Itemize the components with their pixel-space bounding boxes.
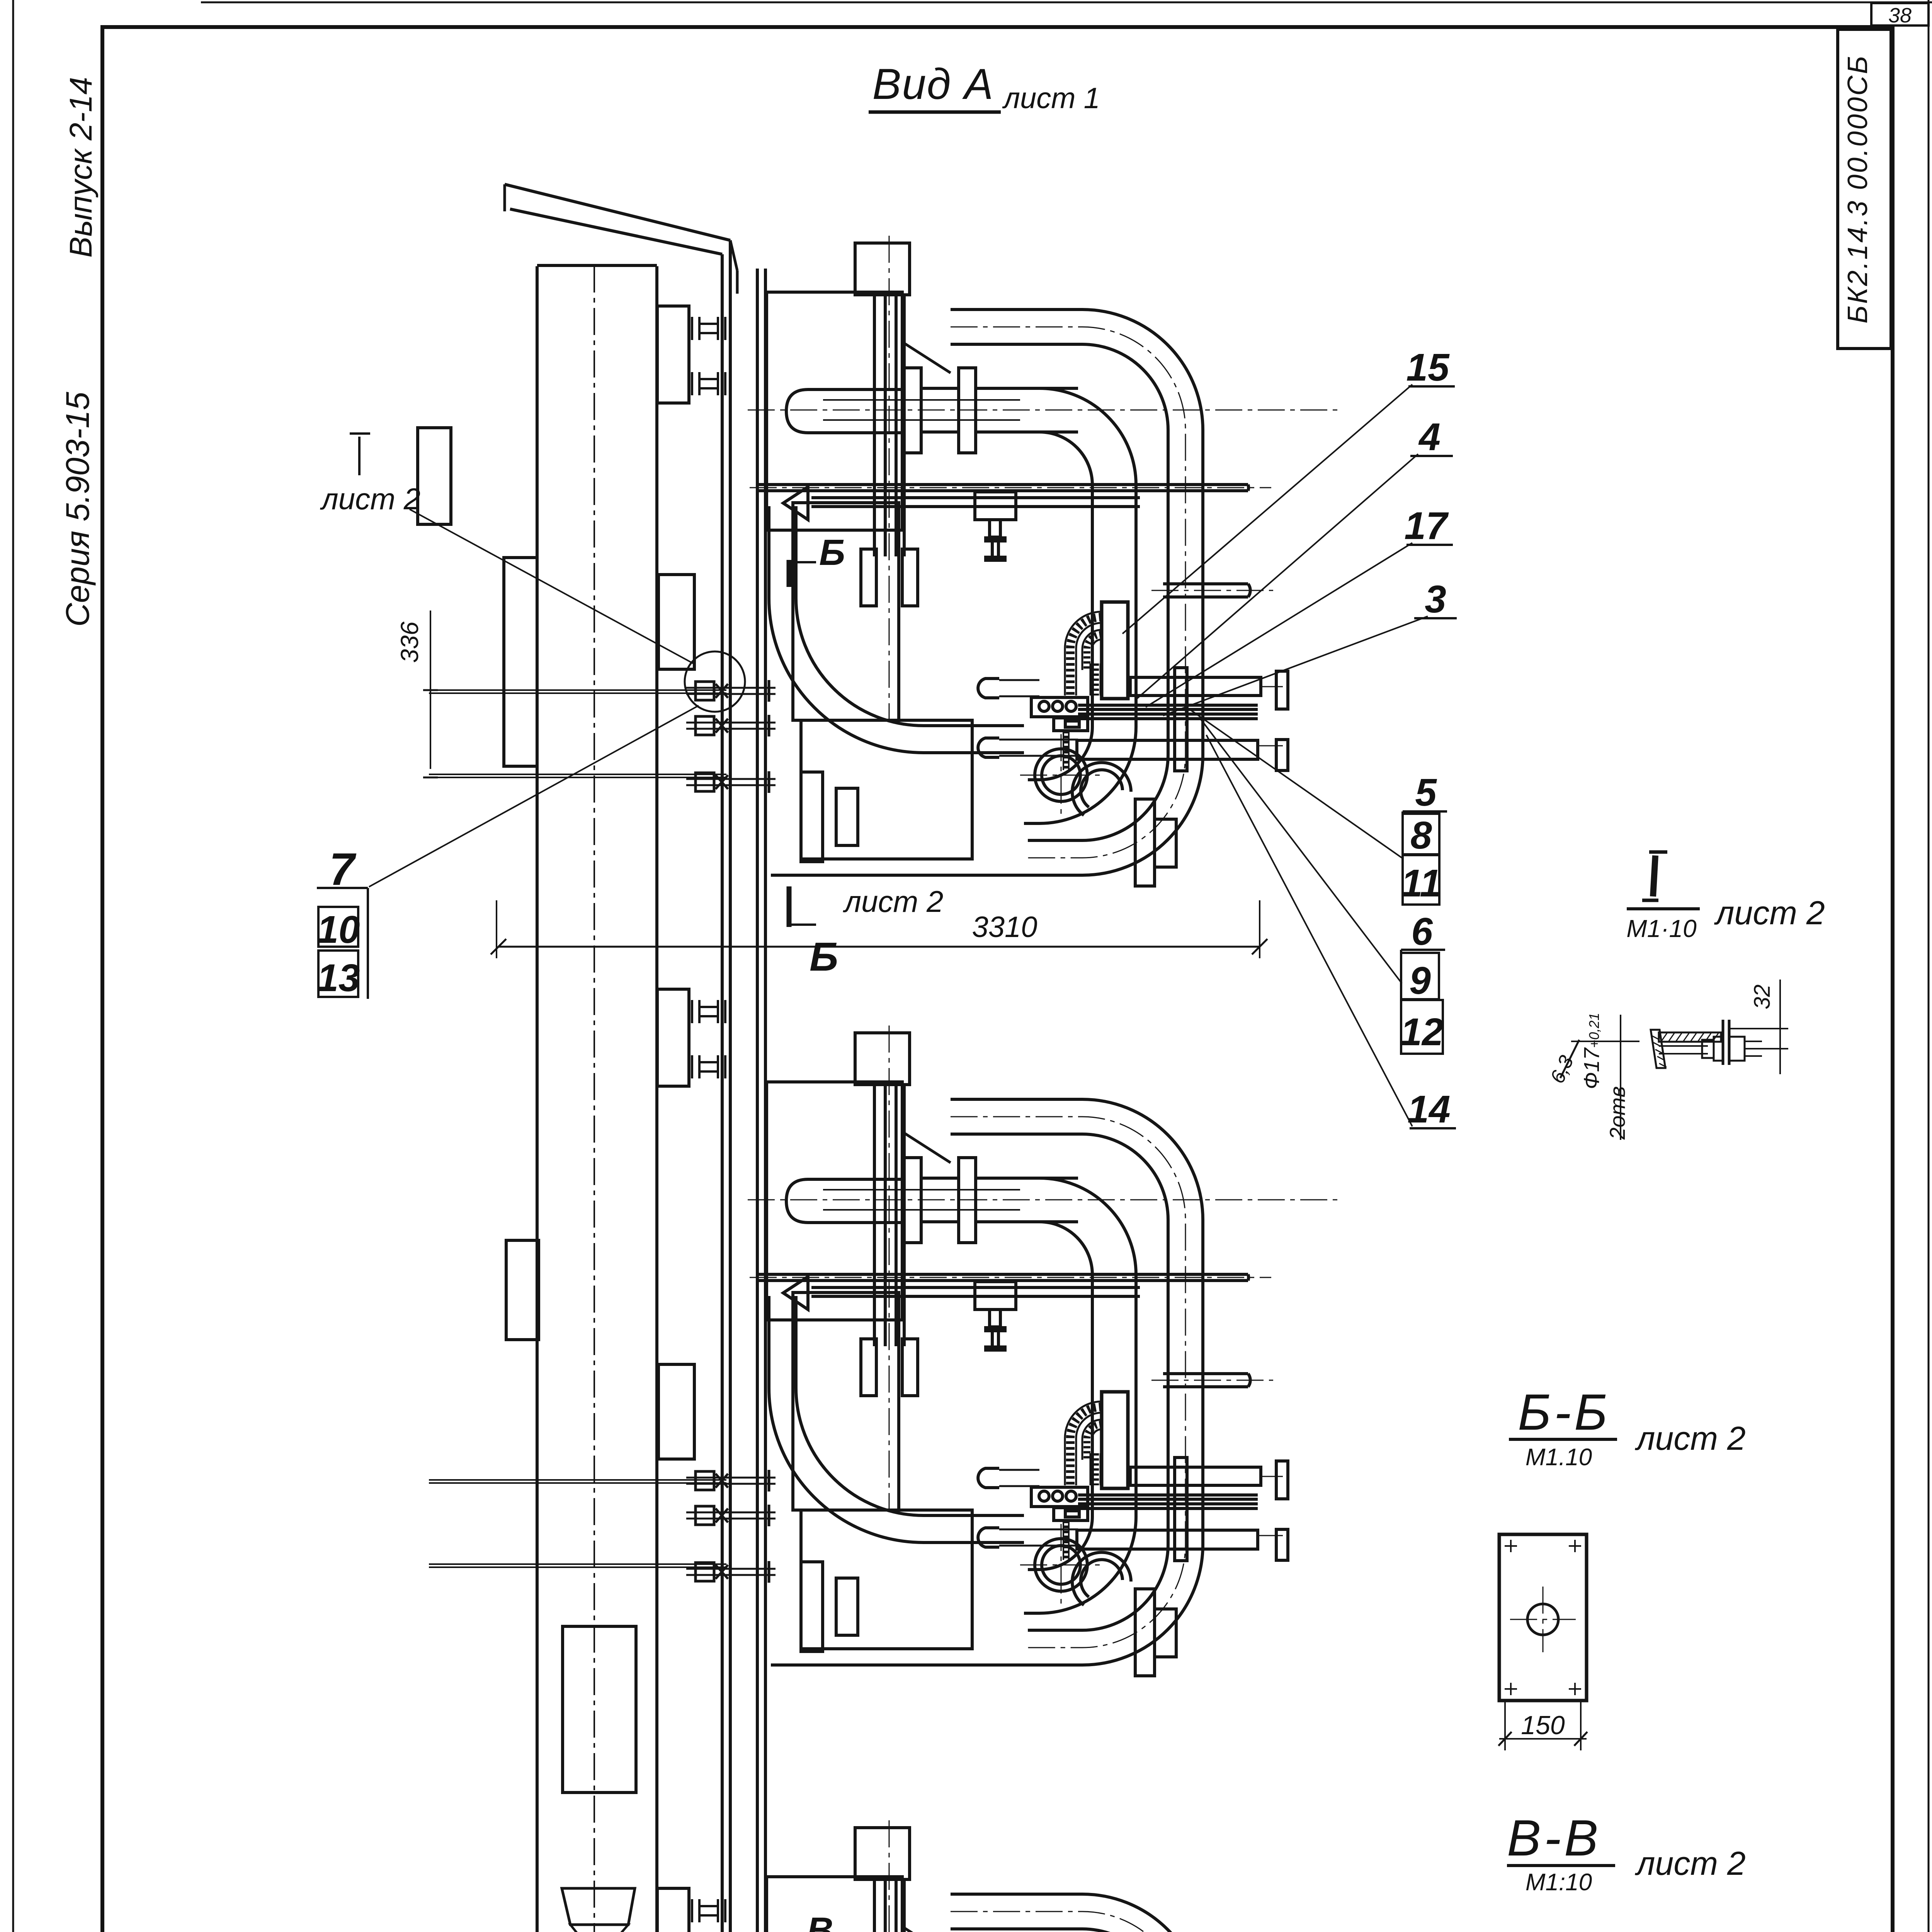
svg-text:Вид А: Вид А bbox=[872, 60, 994, 108]
svg-text:8: 8 bbox=[1410, 814, 1432, 857]
svg-text:лист 2: лист 2 bbox=[320, 482, 420, 516]
svg-text:38: 38 bbox=[1888, 4, 1912, 27]
svg-text:5: 5 bbox=[1415, 771, 1437, 814]
svg-text:лист 2: лист 2 bbox=[1634, 1845, 1746, 1882]
svg-text:150: 150 bbox=[1521, 1711, 1565, 1740]
svg-text:В: В bbox=[807, 1910, 833, 1932]
svg-text:9: 9 bbox=[1409, 959, 1431, 1002]
svg-text:В-В: В-В bbox=[1507, 1810, 1601, 1866]
svg-text:Серия 5.903-15: Серия 5.903-15 bbox=[60, 391, 96, 627]
svg-text:336: 336 bbox=[396, 621, 423, 663]
svg-text:15: 15 bbox=[1406, 346, 1450, 389]
svg-text:Б-Б: Б-Б bbox=[1518, 1384, 1611, 1440]
svg-text:Б: Б bbox=[810, 934, 838, 980]
svg-text:32: 32 bbox=[1750, 985, 1775, 1010]
svg-text:Выпуск 2-14: Выпуск 2-14 bbox=[63, 77, 99, 258]
svg-text:12: 12 bbox=[1400, 1010, 1443, 1054]
svg-text:6: 6 bbox=[1411, 910, 1433, 953]
svg-text:лист 1: лист 1 bbox=[1002, 82, 1100, 115]
svg-text:лист 2: лист 2 bbox=[1714, 895, 1825, 932]
svg-text:М1·10: М1·10 bbox=[1626, 915, 1697, 942]
svg-text:М1.10: М1.10 bbox=[1526, 1444, 1592, 1471]
svg-text:17: 17 bbox=[1404, 504, 1449, 548]
svg-text:11: 11 bbox=[1401, 862, 1441, 905]
svg-text:БК2.14.3 00.000СБ: БК2.14.3 00.000СБ bbox=[1842, 54, 1873, 324]
svg-text:14: 14 bbox=[1407, 1088, 1450, 1131]
svg-text:3: 3 bbox=[1425, 578, 1446, 621]
svg-text:лист 2: лист 2 bbox=[1634, 1420, 1746, 1457]
svg-text:4: 4 bbox=[1418, 415, 1440, 459]
svg-text:лист 2: лист 2 bbox=[843, 884, 943, 918]
svg-text:13: 13 bbox=[317, 956, 360, 1000]
svg-text:2отв: 2отв bbox=[1605, 1086, 1629, 1140]
svg-text:10: 10 bbox=[317, 908, 360, 951]
svg-text:М1:10: М1:10 bbox=[1526, 1869, 1592, 1896]
svg-text:Б: Б bbox=[819, 532, 845, 573]
svg-text:3310: 3310 bbox=[972, 911, 1037, 944]
